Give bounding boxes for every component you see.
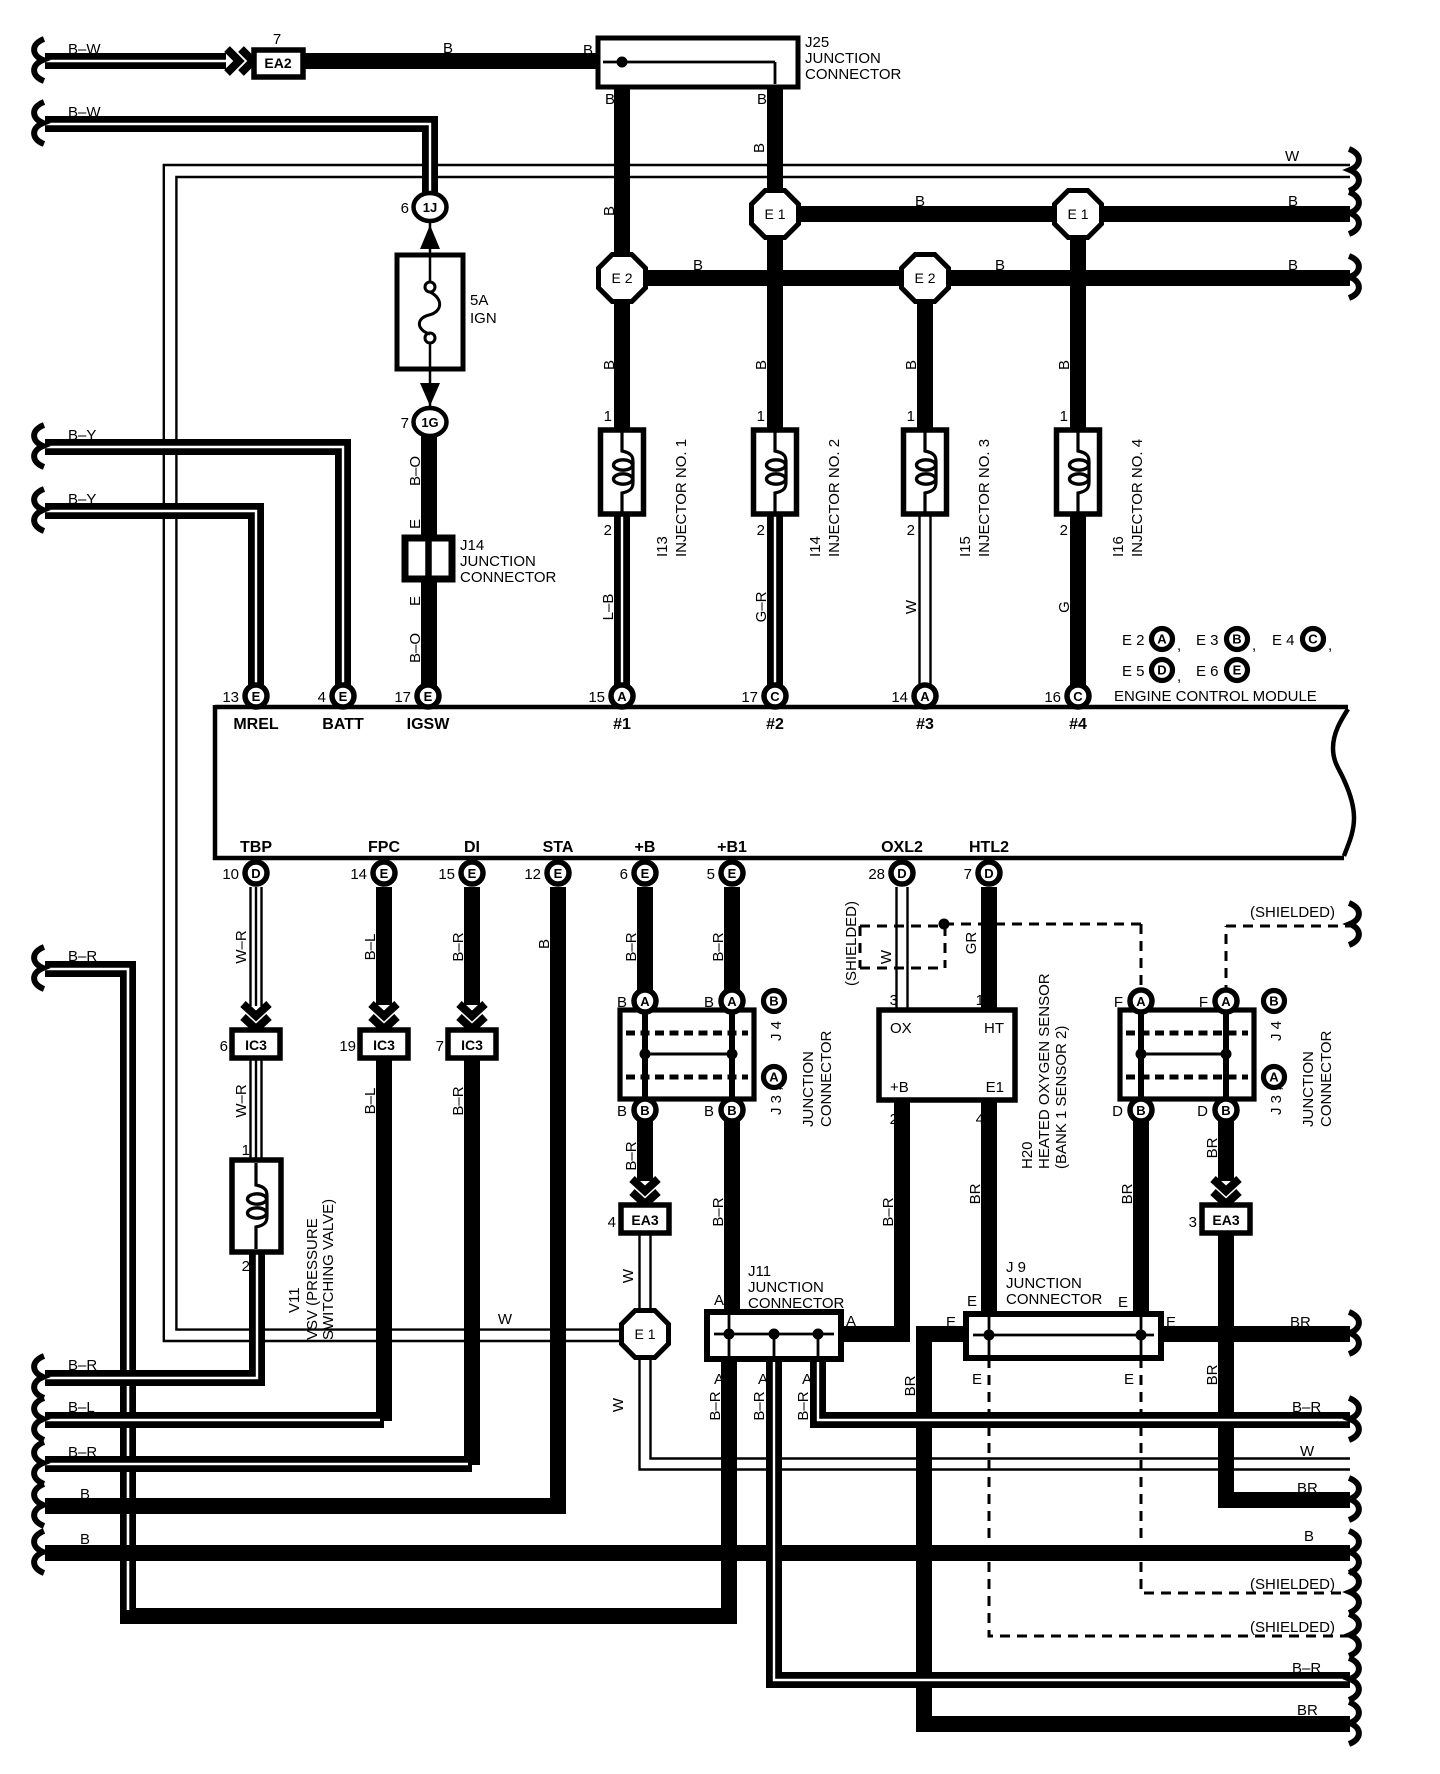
svg-text:B–R: B–R xyxy=(68,1444,97,1461)
wire B E2 down to injector No.3 xyxy=(917,278,933,428)
svg-text:BR: BR xyxy=(1204,1364,1221,1385)
shield drain dashed below J9 right pin E to (SHIELDED) row 1 xyxy=(1141,1358,1359,1613)
svg-text:J 3 ,: J 3 , xyxy=(1268,1087,1285,1115)
ECM terminal #3 pin 14 xyxy=(891,685,936,733)
wire B-O J14 to IGSW xyxy=(421,578,437,690)
svg-text:#3: #3 xyxy=(916,716,934,733)
junction connector J3/J4 legend (left) xyxy=(764,991,836,1128)
svg-text:INJECTOR NO. 2: INJECTOR NO. 2 xyxy=(826,439,843,557)
shield dashed box around OXL2 white wire xyxy=(860,926,945,968)
svg-text:#2: #2 xyxy=(766,716,784,733)
svg-text:CONNECTOR: CONNECTOR xyxy=(460,569,557,586)
svg-text:7: 7 xyxy=(401,415,409,432)
wire W (white) nest from top-right to E1 bottom-left, outer line xyxy=(164,149,1359,1341)
label W right end top xyxy=(1285,148,1300,165)
svg-text:J 4: J 4 xyxy=(1268,1021,1285,1041)
svg-text:I15: I15 xyxy=(957,536,974,557)
svg-text:B–R: B–R xyxy=(450,1086,467,1115)
svg-text:2: 2 xyxy=(604,522,612,539)
ECM terminal HTL2 pin 7 xyxy=(964,839,1009,884)
wire B-R +B column lower to arrow EA3 xyxy=(637,1118,653,1181)
arrow into connector EA3 pin 4 xyxy=(632,1179,658,1204)
svg-text:CONNECTOR: CONNECTOR xyxy=(1318,1030,1335,1127)
svg-text:B: B xyxy=(1304,1528,1314,1545)
svg-text:B: B xyxy=(1136,1103,1145,1118)
wire B-Y from left break to MREL xyxy=(34,489,256,688)
svg-text:E: E xyxy=(407,596,424,606)
svg-text:INJECTOR NO. 1: INJECTOR NO. 1 xyxy=(673,439,690,557)
wire B-L row from FPC to left break xyxy=(34,1398,384,1440)
label W on E1 horizontal white wire xyxy=(498,1311,513,1328)
svg-text:D: D xyxy=(897,866,906,881)
svg-text:JUNCTION: JUNCTION xyxy=(460,553,536,570)
svg-text:E: E xyxy=(339,689,348,704)
junction connector J25 xyxy=(583,34,902,87)
svg-text:2: 2 xyxy=(907,522,915,539)
svg-text:E: E xyxy=(967,1293,977,1310)
ECM terminal +B pin 6 xyxy=(620,839,656,884)
svg-text:L–B: L–B xyxy=(600,594,617,621)
svg-text:IGN: IGN xyxy=(470,310,497,327)
labels left edge bottom rows xyxy=(68,1357,97,1548)
wire B-R +B column upper xyxy=(637,887,653,994)
svg-text:A: A xyxy=(1221,994,1231,1009)
wire B-W from left break to 1J xyxy=(34,102,430,193)
label SHIELDED right top xyxy=(1250,904,1335,921)
wire W-R (white-red) TBP column lower to VSV xyxy=(251,1058,262,1160)
svg-text:W: W xyxy=(610,1397,627,1412)
ECM terminal TBP pin 10 xyxy=(222,839,272,884)
svg-text:B–R: B–R xyxy=(68,1357,97,1374)
svg-text:B–R: B–R xyxy=(623,932,640,961)
svg-text:B: B xyxy=(605,91,615,108)
svg-text:A: A xyxy=(640,994,650,1009)
svg-text:10: 10 xyxy=(222,866,239,883)
svg-text:,: , xyxy=(1177,637,1181,654)
svg-text:HTL2: HTL2 xyxy=(969,839,1009,856)
junction connector J11 xyxy=(707,1263,845,1359)
svg-text:B: B xyxy=(80,1531,90,1548)
wire W (white) E1 octagon down and right to edge xyxy=(640,1356,1351,1470)
svg-text:B: B xyxy=(443,40,453,57)
node E2 octagon row xyxy=(599,255,646,302)
svg-text:J14: J14 xyxy=(460,537,484,554)
labels rotated on injector outputs xyxy=(600,591,1073,622)
label B on E2 row xyxy=(693,257,1298,274)
labels rotated near junction connectors bottom xyxy=(623,1137,1221,1396)
junction connector J3/J4 (right, for oxygen sensor) xyxy=(1112,990,1254,1121)
svg-text:(SHIELDED): (SHIELDED) xyxy=(1250,904,1335,921)
wire B bottom full-width row xyxy=(34,1531,1359,1573)
wire BR right junction connector D-B pin to J9 xyxy=(1133,1118,1149,1316)
connector EA3 pin 4 xyxy=(608,1205,669,1233)
svg-text:W–R: W–R xyxy=(233,1084,250,1118)
svg-text:MREL: MREL xyxy=(233,716,279,733)
svg-text:15: 15 xyxy=(588,689,605,706)
svg-text:7: 7 xyxy=(273,31,281,48)
wire B-W from left break to EA2 xyxy=(34,39,226,81)
svg-text:14: 14 xyxy=(350,866,367,883)
svg-text:B–R: B–R xyxy=(1292,1660,1321,1677)
svg-text:B–W: B–W xyxy=(68,41,101,58)
svg-text:W: W xyxy=(878,949,895,964)
svg-text:V11: V11 xyxy=(286,1287,303,1313)
svg-text:IC3: IC3 xyxy=(373,1037,395,1053)
svg-text:INJECTOR NO. 4: INJECTOR NO. 4 xyxy=(1129,439,1146,557)
svg-text:BATT: BATT xyxy=(322,716,364,733)
junction connector J14 xyxy=(405,537,557,586)
ECM terminal DI pin 15 xyxy=(438,839,483,884)
svg-text:CONNECTOR: CONNECTOR xyxy=(748,1295,845,1312)
ECM terminal FPC pin 14 xyxy=(350,839,400,884)
svg-text:B–R: B–R xyxy=(710,932,727,961)
ECM terminal STA pin 12 xyxy=(524,839,574,884)
svg-text:2: 2 xyxy=(757,522,765,539)
labels A at J11 xyxy=(714,1292,856,1388)
svg-text:1: 1 xyxy=(757,408,765,425)
ECM terminal BATT pin 4 xyxy=(318,685,364,733)
arrow into connector EA3 pin 3 xyxy=(1213,1179,1239,1204)
svg-text:1: 1 xyxy=(604,408,612,425)
svg-text:G: G xyxy=(1056,601,1073,613)
node E1 octagon row xyxy=(752,191,799,238)
arrow into connector IC3 pin 7 xyxy=(459,1004,485,1029)
svg-text:JUNCTION: JUNCTION xyxy=(1006,1275,1082,1292)
svg-text:B–R: B–R xyxy=(795,1391,812,1420)
svg-text:J 4: J 4 xyxy=(768,1021,785,1041)
wire B-L FPC column xyxy=(376,887,392,1421)
svg-text:1G: 1G xyxy=(421,415,438,430)
svg-text:HEATED OXYGEN SENSOR: HEATED OXYGEN SENSOR xyxy=(1036,973,1053,1169)
shield dashed link from box to right junction connector pin F-A xyxy=(944,924,1141,988)
svg-text:B: B xyxy=(704,994,714,1011)
svg-text:1J: 1J xyxy=(423,200,437,215)
svg-text:(SHIELDED): (SHIELDED) xyxy=(1250,1576,1335,1593)
svg-text:C: C xyxy=(1073,689,1083,704)
wire B row through E1 octagons to right edge xyxy=(775,192,1359,234)
svg-text:E 3: E 3 xyxy=(1196,632,1219,649)
injector I14 INJECTOR NO. 2 xyxy=(754,408,844,557)
svg-text:B: B xyxy=(1232,632,1241,647)
svg-text:1: 1 xyxy=(242,1142,250,1159)
svg-text:16: 16 xyxy=(1044,689,1061,706)
svg-text:A: A xyxy=(617,689,627,704)
junction connector J3/J4 legend (right) xyxy=(1264,991,1336,1128)
svg-text:IC3: IC3 xyxy=(245,1037,267,1053)
svg-text:J 3 ,: J 3 , xyxy=(768,1087,785,1115)
wire GR HTL2 to oxygen sensor HT pin 1 xyxy=(981,887,997,1012)
svg-text:E: E xyxy=(946,1314,956,1331)
svg-text:E 4: E 4 xyxy=(1272,632,1295,649)
label B upper wire segments xyxy=(443,40,767,108)
svg-text:,: , xyxy=(1252,637,1256,654)
arrow into connector IC3 pin 19 xyxy=(371,1004,397,1029)
label B-Y first xyxy=(68,427,96,444)
VSV V11 pressure switching valve xyxy=(232,1142,337,1340)
svg-text:E: E xyxy=(1166,1314,1176,1331)
svg-text:W: W xyxy=(1300,1443,1315,1460)
svg-text:A: A xyxy=(846,1313,856,1330)
svg-text:E: E xyxy=(641,866,650,881)
svg-text:BR: BR xyxy=(902,1375,919,1396)
svg-text:B–R: B–R xyxy=(450,932,467,961)
svg-text:6: 6 xyxy=(220,1038,228,1055)
svg-text:E 2: E 2 xyxy=(914,270,935,286)
wire B-R from left break down and to J11 pin 1 xyxy=(34,947,729,1616)
wire B J25 left leg down to injector No.1 xyxy=(614,84,630,428)
svg-text:B: B xyxy=(693,257,703,274)
svg-text:+B1: +B1 xyxy=(717,839,747,856)
svg-text:E: E xyxy=(407,519,424,529)
svg-text:4: 4 xyxy=(608,1214,616,1231)
svg-text:J11: J11 xyxy=(748,1263,771,1280)
svg-text:13: 13 xyxy=(222,689,239,706)
junction connector J9 xyxy=(966,1259,1161,1358)
svg-text:B–L: B–L xyxy=(68,1399,95,1416)
svg-text:B: B xyxy=(601,206,618,216)
ECM terminal OXL2 pin 28 xyxy=(868,839,923,884)
ECM terminal #1 pin 15 xyxy=(588,685,633,733)
wire B (solid) EA2 to J25 xyxy=(303,53,600,69)
svg-text:BR: BR xyxy=(1119,1183,1136,1204)
svg-text:B: B xyxy=(704,1103,714,1120)
svg-text:I16: I16 xyxy=(1110,536,1127,557)
wire B-R +B1 column lower to J11 xyxy=(724,1118,740,1312)
svg-text:#1: #1 xyxy=(613,716,631,733)
ECM connector legend E2-E6 xyxy=(1114,629,1332,706)
svg-text:2: 2 xyxy=(1060,522,1068,539)
svg-text:#4: #4 xyxy=(1069,716,1087,733)
svg-text:4: 4 xyxy=(318,689,326,706)
svg-text:4: 4 xyxy=(976,1111,984,1128)
svg-text:6: 6 xyxy=(620,866,628,883)
wire L-B injector No.1 to ECM #1 xyxy=(614,513,630,688)
svg-text:I13: I13 xyxy=(654,536,671,557)
svg-text:B: B xyxy=(995,257,1005,274)
svg-text:1: 1 xyxy=(1060,408,1068,425)
svg-text:14: 14 xyxy=(891,689,908,706)
svg-text:B–L: B–L xyxy=(362,934,379,961)
injector I13 INJECTOR NO. 1 xyxy=(601,408,691,557)
wire B-R J11 pin 2 down then right to edge xyxy=(774,1359,1359,1700)
svg-text:B: B xyxy=(1056,360,1073,370)
svg-text:7: 7 xyxy=(436,1038,444,1055)
labels rotated B-O and E on IGSW column xyxy=(407,456,424,663)
svg-text:E: E xyxy=(1233,663,1242,678)
svg-text:E 1: E 1 xyxy=(634,1326,655,1342)
svg-text:(SHIELDED): (SHIELDED) xyxy=(1250,1619,1335,1636)
wire B-Y from left break to BATT xyxy=(34,425,343,688)
svg-text:IC3: IC3 xyxy=(461,1037,483,1053)
svg-text:J 9: J 9 xyxy=(1006,1259,1026,1276)
svg-text:E 6: E 6 xyxy=(1196,663,1219,680)
ECM terminal +B1 pin 5 xyxy=(707,839,747,884)
svg-text:W: W xyxy=(498,1311,513,1328)
wire G-R injector No.2 to ECM #2 xyxy=(767,513,783,688)
wire BR oxygen sensor E1 pin 4 to J9 xyxy=(981,1100,997,1316)
svg-text:A: A xyxy=(727,994,737,1009)
svg-text:EA3: EA3 xyxy=(631,1212,658,1228)
svg-text:W: W xyxy=(903,599,920,614)
wire W (white) OXL2 from ECM to oxygen sensor pin 3 xyxy=(897,887,908,1012)
wire BR EA3-3 down then right to edge xyxy=(1226,1233,1359,1520)
shield dashed from second F-A pin to right edge (SHIELDED) xyxy=(1226,903,1359,995)
svg-text:B: B xyxy=(1269,994,1278,1009)
svg-text:17: 17 xyxy=(741,689,758,706)
svg-text:B: B xyxy=(915,193,925,210)
labels rotated B on injector feed columns xyxy=(601,143,1073,370)
svg-text:W–R: W–R xyxy=(233,930,250,964)
svg-text:BR: BR xyxy=(1297,1702,1318,1719)
ECM terminal MREL pin 13 xyxy=(222,685,279,733)
ECM terminal #4 pin 16 xyxy=(1044,685,1089,733)
svg-text:B: B xyxy=(1288,193,1298,210)
svg-text:G–R: G–R xyxy=(753,591,770,622)
svg-text:B: B xyxy=(601,360,618,370)
connector IC3 pin 6 xyxy=(220,1030,280,1058)
svg-text:E: E xyxy=(252,689,261,704)
svg-text:7: 7 xyxy=(964,866,972,883)
shield junction dot xyxy=(939,919,950,930)
label B-R mid left xyxy=(68,948,97,965)
wire B-R row from DI to left break xyxy=(34,1442,472,1484)
fuse 5A IGN xyxy=(397,255,497,369)
svg-text:B–Y: B–Y xyxy=(68,491,96,508)
svg-text:B–R: B–R xyxy=(751,1391,768,1420)
connector IC3 pin 19 xyxy=(339,1030,408,1058)
svg-text:STA: STA xyxy=(543,839,574,856)
svg-text:19: 19 xyxy=(339,1038,356,1055)
svg-text:17: 17 xyxy=(394,689,411,706)
svg-text:A: A xyxy=(1157,632,1167,647)
svg-text:BR: BR xyxy=(967,1183,984,1204)
svg-text:GR: GR xyxy=(963,932,980,955)
wire BR right junction connector second D-B pin to arrow EA3 xyxy=(1218,1118,1234,1181)
svg-text:CONNECTOR: CONNECTOR xyxy=(805,66,902,83)
svg-text:IGSW: IGSW xyxy=(407,716,451,733)
ECM engine control module box outline xyxy=(213,705,1354,860)
svg-text:28: 28 xyxy=(868,866,885,883)
svg-text:E 2: E 2 xyxy=(611,270,632,286)
svg-text:CONNECTOR: CONNECTOR xyxy=(1006,1291,1103,1308)
wire BR J9 left side down then right to edge xyxy=(924,1334,1359,1744)
svg-text:HT: HT xyxy=(984,1020,1004,1037)
svg-text:,: , xyxy=(1177,668,1181,685)
svg-text:(BANK 1 SENSOR 2): (BANK 1 SENSOR 2) xyxy=(1053,1026,1070,1169)
labels right edge column xyxy=(1250,1314,1335,1719)
svg-text:1: 1 xyxy=(976,992,984,1009)
svg-text:B–W: B–W xyxy=(68,104,101,121)
svg-text:A: A xyxy=(714,1292,724,1309)
svg-text:E1: E1 xyxy=(986,1079,1004,1096)
node E1 octagon bottom xyxy=(622,1311,669,1358)
svg-text:OX: OX xyxy=(890,1020,912,1037)
svg-text:3: 3 xyxy=(890,992,898,1009)
svg-text:B: B xyxy=(751,143,768,153)
wire B-R VSV pin 2 down then left to break xyxy=(34,1252,257,1398)
wire B-R oxygen sensor +B pin 2 to J11 right side xyxy=(843,1100,902,1334)
svg-text:JUNCTION: JUNCTION xyxy=(748,1279,824,1296)
svg-text:B–R: B–R xyxy=(710,1197,727,1226)
svg-text:2: 2 xyxy=(890,1111,898,1128)
ECM terminal IGSW pin 17 xyxy=(394,685,450,733)
svg-text:6: 6 xyxy=(401,200,409,217)
wire W (white) EA3-4 down to E1 octagon xyxy=(640,1233,651,1313)
svg-text:C: C xyxy=(770,689,780,704)
svg-text:,: , xyxy=(1328,637,1332,654)
wire B-O 1G to J14 xyxy=(421,436,437,539)
svg-text:F: F xyxy=(1114,994,1123,1011)
junction connector J3/J4 (left, for +B/+B1) xyxy=(617,990,754,1121)
labels rotated below ECM xyxy=(233,930,980,964)
svg-text:A: A xyxy=(714,1371,724,1388)
arrow chevrons into EA2 xyxy=(227,49,253,73)
svg-text:ENGINE CONTROL MODULE: ENGINE CONTROL MODULE xyxy=(1114,688,1317,705)
wire B row through E2 octagons to right edge xyxy=(622,256,1359,298)
svg-text:E 2: E 2 xyxy=(1122,632,1145,649)
svg-text:FPC: FPC xyxy=(368,839,400,856)
wire BR J9 right side to edge xyxy=(1159,1312,1359,1354)
svg-text:B: B xyxy=(617,1103,627,1120)
svg-text:I14: I14 xyxy=(807,536,824,557)
svg-text:3: 3 xyxy=(1189,1214,1197,1231)
svg-text:B: B xyxy=(640,1103,649,1118)
svg-text:B: B xyxy=(1221,1103,1230,1118)
svg-text:B–O: B–O xyxy=(407,456,424,486)
wire W-R (white-red) TBP column upper xyxy=(251,887,262,1006)
node E1 octagon second xyxy=(1055,191,1102,238)
injector I16 INJECTOR NO. 4 xyxy=(1057,408,1147,557)
svg-text:EA2: EA2 xyxy=(264,55,291,71)
svg-text:F: F xyxy=(1199,994,1208,1011)
connector EA2 with pin 7 xyxy=(254,31,303,77)
svg-text:B: B xyxy=(617,994,627,1011)
svg-text:DI: DI xyxy=(464,839,480,856)
svg-text:A: A xyxy=(920,689,930,704)
svg-text:D: D xyxy=(984,866,993,881)
svg-text:1: 1 xyxy=(907,408,915,425)
label W on EA3-E1 white wire xyxy=(610,1268,637,1412)
svg-text:B–R: B–R xyxy=(880,1197,897,1226)
svg-text:CONNECTOR: CONNECTOR xyxy=(818,1030,835,1127)
wire B-R J11 pin 3 down then right to edge xyxy=(818,1359,1359,1440)
svg-text:W: W xyxy=(620,1268,637,1283)
svg-text:A: A xyxy=(769,1070,779,1085)
svg-text:E: E xyxy=(468,866,477,881)
svg-text:B–L: B–L xyxy=(362,1088,379,1115)
connector IC3 pin 7 xyxy=(436,1030,496,1058)
svg-text:B–Y: B–Y xyxy=(68,427,96,444)
wire B J25 right leg down through E1 to injector No.2 xyxy=(767,84,783,428)
svg-text:D: D xyxy=(251,866,260,881)
svg-text:JUNCTION: JUNCTION xyxy=(800,1051,817,1127)
svg-text:D: D xyxy=(1112,1103,1123,1120)
svg-text:JUNCTION: JUNCTION xyxy=(805,50,881,67)
svg-text:5: 5 xyxy=(707,866,715,883)
ECM terminal #2 pin 17 xyxy=(741,685,786,733)
svg-text:B: B xyxy=(757,91,767,108)
svg-text:E 1: E 1 xyxy=(764,206,785,222)
svg-text:B: B xyxy=(769,994,778,1009)
svg-text:SWITCHING VALVE): SWITCHING VALVE) xyxy=(320,1199,337,1340)
svg-text:E: E xyxy=(972,1371,982,1388)
svg-text:12: 12 xyxy=(524,866,541,883)
svg-text:INJECTOR NO. 3: INJECTOR NO. 3 xyxy=(976,439,993,557)
labels rotated between IC3 and components xyxy=(233,1084,467,1118)
svg-text:B–O: B–O xyxy=(407,633,424,663)
svg-text:BR: BR xyxy=(1297,1480,1318,1497)
svg-text:B–R: B–R xyxy=(707,1391,724,1420)
